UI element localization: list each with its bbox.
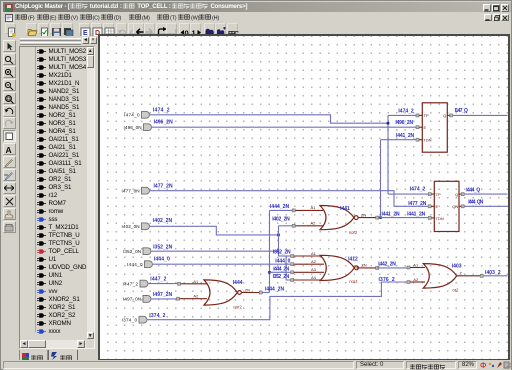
svg-text:I374_2: I374_2 xyxy=(149,313,165,319)
svg-text:A4: A4 xyxy=(311,275,317,280)
svg-text:I444_0: I444_0 xyxy=(275,258,290,264)
svg-text:I474_2: I474_2 xyxy=(410,186,426,192)
wire I402_2N branch to I441 A2 xyxy=(278,226,280,256)
svg-text:I403_2: I403_2 xyxy=(485,270,501,276)
wire I444_QN xyxy=(464,205,507,207)
svg-text:I444_QN: I444_QN xyxy=(468,200,483,206)
svg-text:E: E xyxy=(424,125,427,130)
svg-text:I444_0: I444_0 xyxy=(154,257,170,263)
svg-text:Q: Q xyxy=(455,192,458,197)
svg-text:I497_0N: I497_0N xyxy=(123,297,141,302)
output square U2 Q xyxy=(461,193,464,196)
svg-text:ZN: ZN xyxy=(245,287,250,292)
svg-text:or2: or2 xyxy=(452,288,459,293)
svg-text:I477_0N: I477_0N xyxy=(122,188,140,193)
svg-text:nor2: nor2 xyxy=(233,305,242,310)
input port I477_0N xyxy=(142,187,150,194)
nor gate I444 xyxy=(178,282,181,285)
svg-text:Q: Q xyxy=(443,113,446,118)
svg-text:I477_2N: I477_2N xyxy=(154,183,173,189)
input port I352_0N xyxy=(143,248,151,255)
svg-text:I441_2N: I441_2N xyxy=(407,211,425,217)
svg-text:I441_2N: I441_2N xyxy=(396,133,414,139)
nor gate I441 xyxy=(294,209,323,211)
svg-text:I444_2N: I444_2N xyxy=(265,287,284,293)
svg-text:A1: A1 xyxy=(311,251,317,256)
wire I477_2N xyxy=(150,191,428,207)
svg-text:Φ: Φ xyxy=(480,361,486,369)
svg-text:ZN: ZN xyxy=(361,263,366,268)
svg-text:ZN: ZN xyxy=(361,213,366,218)
svg-text:A2: A2 xyxy=(311,259,317,264)
wire I402_2N xyxy=(150,226,279,235)
wire I374_2 xyxy=(147,282,407,320)
wire to A3 of I412 xyxy=(270,271,293,273)
wire I447_2 xyxy=(148,283,179,285)
svg-text:TDN: TDN xyxy=(423,138,431,143)
output square U2 QN xyxy=(461,205,464,208)
svg-text:A3: A3 xyxy=(311,267,317,272)
svg-text:A: A xyxy=(5,145,11,154)
wire I444_2N vertical xyxy=(269,210,271,292)
or gate I403 xyxy=(407,266,410,269)
svg-text:I147_Q: I147_Q xyxy=(455,108,468,114)
svg-text:A2: A2 xyxy=(311,221,317,226)
output square I412 xyxy=(376,266,379,269)
svg-text:TP: TP xyxy=(424,113,429,118)
svg-text:I497_2N: I497_2N xyxy=(153,292,172,298)
wire I444_Q xyxy=(464,193,507,195)
svg-text:A2: A2 xyxy=(193,294,199,299)
output square I441 xyxy=(376,216,379,219)
output square I444 xyxy=(259,291,262,294)
junction I441_2N xyxy=(379,216,382,219)
svg-text:I496_2N: I496_2N xyxy=(395,120,413,126)
svg-text:I412: I412 xyxy=(348,256,358,262)
input port I444_0 xyxy=(145,261,153,268)
input port I496_0N xyxy=(144,124,152,131)
wire I442_2N xyxy=(377,267,407,269)
svg-text:I352_2N: I352_2N xyxy=(273,249,291,255)
svg-text:A1: A1 xyxy=(311,205,317,210)
svg-text:I477_2N: I477_2N xyxy=(408,201,426,207)
svg-text:I352_0N: I352_0N xyxy=(123,249,141,254)
input port I374_0 xyxy=(139,316,147,323)
output square U1 xyxy=(450,114,453,117)
wire I444_0 xyxy=(153,263,292,265)
svg-text:I441_2N: I441_2N xyxy=(382,211,400,217)
junction I402_2N xyxy=(277,234,280,237)
wire I474_2 xyxy=(150,115,388,123)
flip-flop box U2 xyxy=(434,181,459,231)
input port I402_0N xyxy=(142,223,150,230)
svg-text:I496_2N: I496_2N xyxy=(154,119,173,125)
svg-text:A2: A2 xyxy=(413,277,419,282)
svg-text:I447_2: I447_2 xyxy=(123,281,139,286)
svg-text:I442_2N: I442_2N xyxy=(378,262,396,268)
svg-text:nor4: nor4 xyxy=(349,279,358,284)
svg-text:TP: TP xyxy=(436,192,441,197)
junction I444_2N xyxy=(268,271,271,274)
wire I444_2N to A1 of I441 xyxy=(270,209,294,211)
svg-text:I352_2N: I352_2N xyxy=(273,274,290,280)
wire I352_2N xyxy=(151,250,278,252)
svg-text:I474_0: I474_0 xyxy=(124,113,140,118)
svg-text:I444_2N: I444_2N xyxy=(273,266,289,272)
svg-text:QN: QN xyxy=(452,204,458,209)
svg-text:I402_0N: I402_0N xyxy=(122,224,140,229)
svg-text:I496_0N: I496_0N xyxy=(124,125,142,130)
wire I403_2 xyxy=(483,275,507,277)
svg-text:I444_2N: I444_2N xyxy=(270,204,289,210)
svg-text:I444: I444 xyxy=(233,280,243,286)
svg-text:nor2: nor2 xyxy=(349,230,358,235)
svg-text:Z: Z xyxy=(459,270,462,275)
svg-text:E: E xyxy=(436,204,439,209)
svg-text:I444_Q: I444_Q xyxy=(466,188,480,194)
svg-text:I352_2N: I352_2N xyxy=(153,244,172,250)
input port I474_0 xyxy=(142,111,150,118)
svg-text:I376_2: I376_2 xyxy=(379,277,395,283)
svg-text:I444_0: I444_0 xyxy=(127,262,143,267)
wire I441_2N xyxy=(380,140,382,218)
wire I496_2N xyxy=(152,126,416,128)
wire I147_Q xyxy=(453,114,508,116)
input port I447_2 xyxy=(140,280,148,287)
svg-text:I474_2: I474_2 xyxy=(153,108,170,114)
svg-text:A1: A1 xyxy=(193,279,199,284)
svg-text:I374_0: I374_0 xyxy=(122,317,138,322)
input port I497_0N xyxy=(143,296,151,303)
wire to A4 of I412 xyxy=(286,256,292,280)
output square I403 xyxy=(480,274,483,277)
wire I497_2N xyxy=(151,298,178,300)
svg-text:I402_2N: I402_2N xyxy=(272,217,290,223)
nor gate I412 xyxy=(291,255,294,258)
svg-text:TDN: TDN xyxy=(436,216,444,221)
svg-text:I474_2: I474_2 xyxy=(398,108,414,114)
junction I474_2 xyxy=(387,122,390,125)
svg-text:I441: I441 xyxy=(340,206,350,212)
svg-text:I402_2N: I402_2N xyxy=(153,218,172,224)
flip-flop box U1 xyxy=(422,103,447,152)
svg-text:A1: A1 xyxy=(413,262,419,267)
svg-text:I447_2: I447_2 xyxy=(150,276,166,282)
svg-text:I403: I403 xyxy=(452,264,462,270)
